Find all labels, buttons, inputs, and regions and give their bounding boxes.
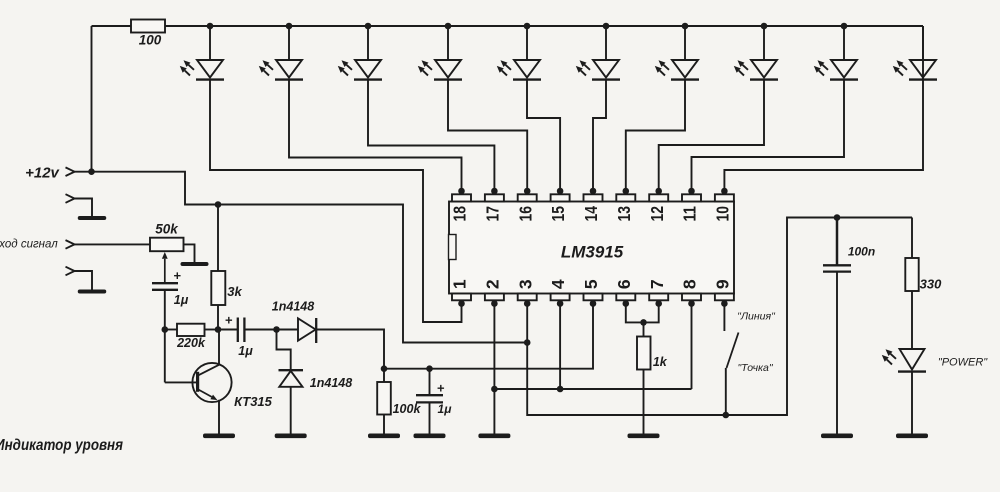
wire LED3 cathode to pin 17 (368, 80, 494, 191)
label +12v (25, 164, 60, 181)
potentiometer 50k (150, 238, 184, 252)
node +12v junction (88, 168, 95, 175)
LED HL4 (418, 26, 462, 80)
label + input cap (173, 268, 181, 283)
wire diode to detector node (316, 330, 384, 369)
wire pins 2-4-8 net (494, 304, 691, 390)
node pin4 net (557, 386, 564, 393)
svg-text:17: 17 (483, 206, 503, 222)
connector +12v (66, 167, 75, 176)
wire detector node to pin 5 (384, 304, 593, 369)
ground upper input (78, 216, 107, 220)
ground 100k (368, 434, 400, 439)
label Tochka (737, 362, 773, 374)
pin 2 (483, 279, 504, 307)
label 100 (139, 33, 162, 48)
svg-text:1μ: 1μ (174, 293, 189, 307)
diode D2 1n4148 shunt (279, 370, 304, 433)
wire 3k bottom (217, 305, 219, 330)
pin 17 (483, 188, 504, 222)
ground 100n (821, 434, 853, 439)
label 1n4148 shunt (310, 376, 352, 390)
wire LED1 cathode to pin 1 (210, 80, 462, 322)
svg-text:12: 12 (647, 206, 667, 222)
pin 3 (515, 279, 536, 307)
wire 100k to ground (383, 415, 385, 434)
capacitor 1u series (238, 318, 245, 343)
wire +12v top rail (92, 26, 924, 172)
connector signal input (66, 240, 151, 249)
label Linija (737, 310, 776, 322)
svg-text:100: 100 (139, 33, 162, 48)
wire 3k top (217, 205, 219, 272)
wire LED6 cathode to pin 14 (593, 80, 606, 191)
svg-text:Вход сигнал: Вход сигнал (0, 239, 58, 251)
svg-text:9: 9 (713, 279, 733, 289)
wire V+ to switch and power branch (527, 218, 912, 416)
label POWER (938, 356, 988, 368)
capacitor 100n (823, 265, 851, 271)
wire pin 3 V+ (526, 304, 528, 343)
LED HL7 (655, 26, 699, 80)
wire LED5 cathode to pin 15 (527, 80, 560, 191)
label LM3915 (561, 242, 624, 261)
op-amp IC U1 LM3915 body (449, 202, 734, 294)
node det cap top (426, 365, 433, 372)
svg-text:1n4148: 1n4148 (272, 299, 314, 313)
label 1u series (238, 344, 253, 358)
pin 5 (581, 279, 602, 307)
LED HL3 (338, 26, 382, 80)
svg-text:КТ315: КТ315 (234, 394, 273, 409)
svg-text:5: 5 (581, 279, 601, 289)
wire pot to ground (184, 244, 195, 262)
wire input cap to base node (164, 290, 166, 330)
wire node A to 220k (165, 329, 177, 331)
wire det cap top lead (429, 369, 431, 396)
label 330 (920, 276, 942, 291)
wire node B to cap (218, 329, 238, 331)
node switch bottom junction (723, 412, 730, 419)
svg-text:"Линия": "Линия" (737, 310, 776, 322)
connector gnd lower (66, 267, 93, 290)
resistor 330 (905, 258, 918, 291)
ground det cap (414, 434, 446, 439)
wire pin 2 to ground (493, 304, 495, 434)
svg-text:+: + (225, 312, 233, 327)
pin 4 (548, 279, 569, 307)
ground emitter (203, 434, 235, 439)
svg-text:1μ: 1μ (438, 402, 453, 416)
LED power indicator (882, 349, 926, 372)
wire LED2 cathode to pin 18 (289, 80, 462, 191)
resistor 100 (131, 20, 165, 33)
svg-text:100k: 100k (393, 402, 422, 416)
capacitor 1u detector (416, 395, 443, 402)
svg-text:15: 15 (548, 206, 568, 222)
svg-text:"Точка": "Точка" (737, 362, 773, 374)
wire +12v feed (75, 172, 528, 343)
ground 1k (628, 434, 660, 439)
wire emitter to ground (218, 400, 220, 434)
node pins 6-7 junction (640, 319, 647, 326)
ground shunt diode (275, 434, 307, 439)
wire LED10 cathode to pin 10 (724, 26, 923, 191)
wire cap to diode node (244, 329, 276, 331)
switch mode lever (727, 333, 739, 369)
LED HL6 (576, 26, 620, 80)
diode D1 1n4148 (277, 318, 317, 343)
label 1n4148 series (272, 299, 314, 313)
label KT315 (234, 394, 273, 409)
wire node to shunt diode (277, 330, 291, 371)
svg-text:4: 4 (548, 279, 568, 289)
LED HL2 (259, 26, 303, 80)
label 1u detector (438, 402, 453, 416)
wire 220k to node B (205, 329, 219, 331)
connector gnd upper (66, 194, 93, 216)
label 3k (227, 284, 242, 299)
svg-text:14: 14 (581, 206, 601, 222)
LED HL5 (497, 26, 541, 80)
svg-text:11: 11 (680, 206, 700, 222)
LED HL9 (814, 26, 858, 80)
svg-text:13: 13 (614, 206, 634, 222)
label 100k (393, 402, 422, 416)
wire switch to V+ line (725, 368, 727, 415)
wire 1k to ground (643, 370, 645, 434)
pot wiper arrow (162, 252, 168, 283)
label 50k (155, 222, 179, 237)
pin 12 (647, 188, 668, 222)
resistor 220k (177, 324, 205, 336)
svg-text:+: + (173, 268, 181, 283)
resistor 100k (377, 382, 391, 415)
label 1u input (174, 293, 189, 307)
svg-text:Индикатор уровня: Индикатор уровня (0, 437, 123, 454)
pin 10 (713, 188, 734, 222)
ground lower input (78, 290, 107, 294)
node 100k top (381, 365, 388, 372)
ground pin 2 (478, 434, 510, 439)
LED HL8 (734, 26, 778, 80)
svg-text:1k: 1k (653, 355, 668, 369)
svg-text:6: 6 (614, 279, 634, 289)
pin 1 (450, 279, 471, 307)
ground pot (181, 262, 209, 266)
wire LED8 cathode to pin 12 (659, 80, 764, 191)
svg-text:1n4148: 1n4148 (310, 376, 352, 390)
label Vhod signal (0, 239, 58, 251)
node pin3 V+ junction (524, 339, 531, 346)
pin 13 (614, 188, 635, 222)
svg-text:18: 18 (450, 206, 470, 222)
wire 330 top lead (911, 218, 913, 259)
svg-text:+: + (437, 380, 445, 395)
wire LED4 cathode to pin 16 (448, 80, 527, 191)
rail junction dots (207, 23, 848, 30)
ground power LED (896, 434, 928, 439)
label + series cap (225, 312, 233, 327)
wire det cap to ground (429, 402, 431, 433)
svg-text:+12v: +12v (25, 164, 60, 181)
svg-text:16: 16 (515, 206, 535, 222)
svg-text:3: 3 (515, 279, 535, 289)
resistor 1k (637, 337, 651, 370)
node pin2 net (491, 386, 498, 393)
node V+ branch junction (215, 201, 222, 208)
wire 100k top lead (383, 369, 385, 382)
svg-text:220k: 220k (176, 336, 206, 350)
pin 11 (680, 188, 701, 222)
capacitor 1u input (152, 283, 178, 290)
pin 8 (680, 279, 701, 307)
wire pins 6-7 to 1k (626, 304, 659, 337)
svg-text:2: 2 (483, 279, 503, 289)
label 220k (176, 336, 206, 350)
svg-text:LM3915: LM3915 (561, 242, 624, 261)
pin 6 (614, 279, 635, 307)
svg-text:8: 8 (680, 279, 700, 289)
pin 7 (647, 279, 668, 306)
transistor Q1 KT315 (192, 363, 231, 402)
svg-text:"POWER": "POWER" (938, 356, 988, 368)
svg-text:7: 7 (647, 279, 667, 289)
IC pin-1 notch (449, 235, 457, 260)
wire LED7 cathode to pin 13 (626, 80, 685, 191)
wire 100n top lead (836, 218, 839, 266)
pin 15 (548, 188, 569, 222)
node collector junction B (215, 326, 222, 333)
svg-text:1: 1 (450, 279, 470, 289)
node 100n junction (834, 214, 841, 221)
label 100n (848, 245, 875, 259)
pin 9 (713, 279, 734, 307)
svg-text:100n: 100n (848, 245, 875, 259)
svg-text:3k: 3k (227, 284, 242, 299)
wire base (165, 330, 198, 383)
wire power LED to ground (911, 372, 913, 434)
wire collector (218, 330, 220, 366)
LED HL1 (180, 26, 224, 80)
svg-text:10: 10 (713, 206, 733, 222)
wire pin 9 stub (723, 304, 725, 332)
node detector input (273, 326, 280, 333)
node base network A (162, 326, 169, 333)
wire LED9 cathode to pin 11 (692, 80, 845, 191)
label + det cap (437, 380, 445, 395)
resistor 3k (211, 271, 225, 305)
pin 14 (581, 188, 602, 222)
svg-text:50k: 50k (155, 222, 179, 237)
label Indikator urovnja (0, 437, 123, 454)
label 1k (653, 355, 668, 369)
wire 330 to LED (911, 291, 913, 349)
svg-text:1μ: 1μ (238, 344, 253, 358)
LED HL10 (893, 26, 937, 80)
pin 18 (450, 188, 471, 222)
svg-text:330: 330 (920, 276, 942, 291)
pin 16 (515, 188, 536, 222)
wire 100n to ground (836, 272, 838, 434)
